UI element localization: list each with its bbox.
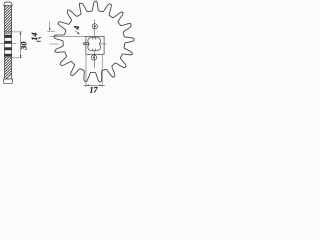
leader arrow for 4: [75, 31, 79, 35]
svg-text:14: 14: [30, 32, 39, 40]
vertical centre line of gear: [93, 19, 95, 68]
splined bore: [88, 38, 101, 51]
svg-text:4: 4: [72, 26, 81, 31]
horizontal centre line of hub: [83, 43, 107, 45]
bore bottom notch: [93, 49, 96, 51]
wire: horizontal centre axis line through side view: [0, 42, 15, 44]
hub spline dark bands: [4, 35, 12, 57]
small hole above hub: [92, 24, 97, 29]
hatching upper section: [1, 0, 15, 43]
side-view top tooth cap: [4, 2, 12, 6]
leader arrow for 14: [36, 37, 41, 39]
svg-text:17: 17: [90, 86, 99, 95]
hub square: [86, 37, 104, 55]
side-view body outline: [5, 6, 12, 79]
dimension 17 extension lines: [85, 55, 87, 87]
hub top edge extended left: [50, 35, 86, 37]
svg-text:30: 30: [20, 41, 29, 51]
hatching lower section: [1, 46, 15, 84]
dimension 17 line with arrows: [83, 84, 105, 86]
keyway slot: [84, 42, 89, 44]
centre line dash segment left of gear: [50, 43, 59, 45]
dimension 30 line: [20, 32, 22, 58]
side-view bottom tooth cap: [4, 79, 13, 84]
bore top notch: [93, 37, 96, 39]
extension line with down arrow near hub top-left: [49, 21, 51, 30]
dimension 30 extension ticks: [4, 31, 22, 33]
small hole below hub: [91, 55, 96, 60]
sprocket gear outline: [54, 1, 134, 82]
